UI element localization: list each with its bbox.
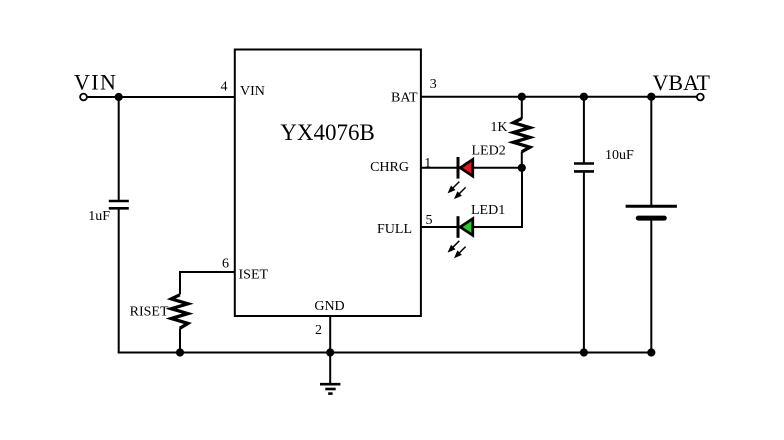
pin label ISET <box>239 267 269 282</box>
svg-text:3: 3 <box>430 77 437 92</box>
label YX4076B <box>280 120 375 145</box>
svg-text:BAT: BAT <box>391 91 418 106</box>
svg-text:1uF: 1uF <box>88 209 110 224</box>
value label 1K <box>490 120 507 135</box>
wire pin 6 ISET to resistor RISET <box>180 272 235 295</box>
svg-text:2: 2 <box>315 323 322 338</box>
wire capacitor 10uF to bottom rail <box>583 172 585 353</box>
pin number 6 <box>222 257 229 272</box>
svg-text:FULL: FULL <box>377 222 412 237</box>
wire VBAT down to battery BT1 <box>650 97 652 206</box>
value label 1uF <box>88 209 110 224</box>
label LED2 <box>472 144 506 159</box>
svg-text:VIN: VIN <box>74 70 117 95</box>
junction BAT-capacitor 10uF <box>580 93 588 101</box>
value label 10uF <box>605 148 634 163</box>
pin number 1 <box>424 156 431 171</box>
wire pin 5 FULL to LED1 <box>421 226 457 228</box>
wire bottom rail <box>118 352 653 354</box>
svg-text:5: 5 <box>426 213 433 228</box>
capacitor 10uF <box>574 164 594 172</box>
pin number 5 <box>426 213 433 228</box>
LED1 light arrows <box>448 241 466 258</box>
junction 10uF bottom <box>580 348 588 356</box>
svg-text:ISET: ISET <box>239 267 269 282</box>
wire LED1 anode up to LED2 node <box>474 168 522 227</box>
svg-text:YX4076B: YX4076B <box>280 120 375 145</box>
junction VBAT-battery <box>647 93 655 101</box>
svg-text:LED1: LED1 <box>471 203 505 218</box>
junction GND at bottom rail <box>326 348 334 356</box>
node VIN label <box>74 70 117 95</box>
LED D2 LED2 red <box>458 157 473 179</box>
wire resistor 1K to LED2 node <box>521 152 523 168</box>
svg-text:RISET: RISET <box>130 305 169 320</box>
wire pin 1 CHRG to LED2 <box>421 167 457 169</box>
wire VIN to pin 4 <box>87 96 235 98</box>
wire BAT down to capacitor 10uF <box>583 97 585 164</box>
junction BAT-resistor 1K <box>518 93 526 101</box>
op-amp U1 YX4076B box <box>235 50 421 317</box>
svg-text:CHRG: CHRG <box>370 160 409 175</box>
wire RISET to bottom rail <box>179 328 181 352</box>
pin label FULL <box>377 222 412 237</box>
label LED1 <box>471 203 505 218</box>
terminal VIN <box>80 94 87 101</box>
pin label VIN <box>240 84 265 99</box>
LED2 light arrows <box>448 182 466 200</box>
wire capacitor 1uF to bottom rail <box>118 209 120 353</box>
junction VIN node <box>115 93 123 101</box>
wire battery to bottom rail <box>650 218 652 352</box>
junction battery bottom <box>647 348 655 356</box>
pin label GND <box>314 299 344 314</box>
wire LED2 anode to junction <box>474 167 522 169</box>
resistor 1K <box>513 119 530 152</box>
pin label BAT <box>391 91 418 106</box>
svg-text:VBAT: VBAT <box>653 70 711 95</box>
resistor RISET <box>171 295 188 329</box>
terminal VBAT <box>697 94 704 101</box>
wire pin 2 GND down through rail <box>329 316 331 384</box>
svg-text:GND: GND <box>314 299 344 314</box>
capacitor 1uF <box>109 201 129 208</box>
junction RISET bottom <box>176 348 184 356</box>
svg-text:6: 6 <box>222 257 229 272</box>
wire pin 3 BAT to VBAT <box>421 96 697 98</box>
LED D1 LED1 green <box>458 216 473 238</box>
ground <box>320 384 340 393</box>
svg-text:LED2: LED2 <box>472 144 506 159</box>
wire VIN node down to capacitor C1 <box>118 97 120 201</box>
pin label CHRG <box>370 160 409 175</box>
wire BAT down to resistor 1K <box>521 97 523 119</box>
battery BT1 <box>626 206 677 218</box>
node VBAT label <box>653 70 711 95</box>
svg-text:10uF: 10uF <box>605 148 634 163</box>
svg-text:1K: 1K <box>490 120 507 135</box>
pin number 4 <box>221 80 228 95</box>
svg-text:VIN: VIN <box>240 84 265 99</box>
label RISET <box>130 305 169 320</box>
pin number 2 <box>315 323 322 338</box>
svg-text:4: 4 <box>221 80 228 95</box>
junction LED2 anode node <box>518 164 526 172</box>
pin number 3 <box>430 77 437 92</box>
